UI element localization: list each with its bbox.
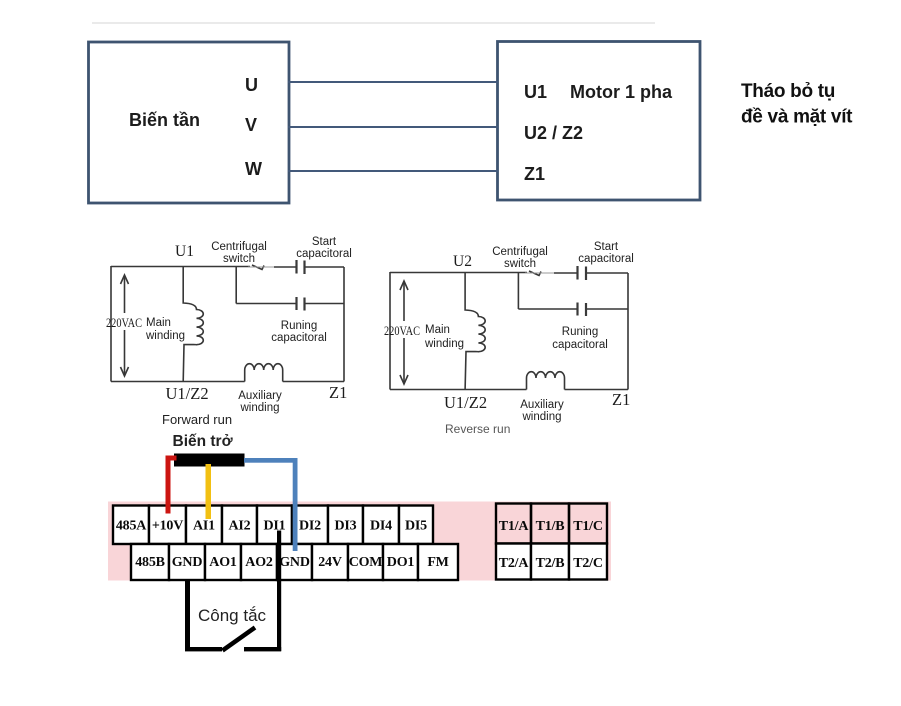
right vertical wire [343,267,345,382]
terminal FM [418,544,458,580]
start capacitor C1 [295,260,297,274]
left vertical wire [389,272,391,390]
wire blue (RV1 to GND) [244,458,298,463]
wire W (inverter W to motor Z1) [288,170,498,172]
top wire to start capacitor [554,272,577,274]
svg-text:485A: 485A [116,519,147,534]
centrifugal switch branch wire [235,267,237,304]
svg-text:T2/B: T2/B [536,556,565,571]
switch bottom-left lead [185,647,222,651]
right vertical wire [627,273,629,390]
bottom wire left [111,381,245,383]
svg-text:T1/A: T1/A [499,519,530,534]
terminal DI2 [292,506,328,545]
terminal GND b [277,544,312,580]
svg-text:U1/Z2: U1/Z2 [444,393,487,412]
svg-text:T2/A: T2/A [499,556,530,571]
svg-text:Z1: Z1 [612,390,630,409]
terminal T1/C [569,504,607,544]
svg-text:capacitoral: capacitoral [271,332,327,344]
svg-text:COM: COM [349,555,383,570]
centrifugal switch SW1 blade [252,265,264,270]
bottom wire right [565,389,629,391]
wire U (inverter U to motor U1) [288,81,498,83]
terminal GND a [169,544,205,580]
svg-text:Biến trở: Biến trở [173,433,234,450]
start capacitor C3 [576,266,578,280]
top wire right segment [587,272,628,274]
svg-text:AI1: AI1 [193,519,215,534]
svg-text:Start: Start [594,241,619,253]
svg-text:Auxiliary: Auxiliary [238,390,282,402]
terminal 485B [131,544,169,580]
terminal T2/B [531,544,569,580]
terminal AO2 [241,544,277,580]
terminal 24V [312,544,348,580]
svg-text:Motor 1 pha: Motor 1 pha [570,82,673,102]
svg-text:switch: switch [504,258,536,270]
svg-text:Main: Main [425,324,450,336]
svg-text:T2/C: T2/C [573,556,603,571]
svg-text:FM: FM [427,555,448,570]
bottom wire right [283,381,344,383]
svg-text:U2: U2 [453,253,472,270]
svg-text:DI1: DI1 [264,519,286,534]
terminal DI1 [257,506,292,545]
wire V (inverter V to motor U2/Z2) [288,126,498,128]
svg-text:DO1: DO1 [387,555,415,570]
terminal +10V [149,506,186,545]
top wire to start capacitor [274,266,296,268]
auxiliary winding L2 [245,364,283,382]
svg-text:Runing: Runing [562,326,598,338]
pink background band [108,502,611,581]
main winding L1 [183,267,203,382]
wire black (GND down to switch) [185,580,190,651]
running capacitor wire [518,308,576,310]
svg-text:U1/Z2: U1/Z2 [166,384,209,403]
svg-text:Tháo bỏ tụ: Tháo bỏ tụ [741,81,835,102]
svg-text:capacitoral: capacitoral [578,253,634,265]
svg-text:Forward run: Forward run [162,412,232,427]
centrifugal switch branch wire [517,273,519,309]
svg-text:Centrifugal: Centrifugal [492,246,548,258]
terminal T2/A [496,544,531,580]
terminal T2/C [569,544,607,580]
svg-text:Reverse run: Reverse run [445,422,510,436]
top wire left segment [390,272,527,274]
svg-text:W: W [245,159,262,179]
svg-text:485B: 485B [135,555,165,570]
terminal COM [348,544,383,580]
wire black (DI1 down to switch) [277,531,281,652]
svg-text:Runing: Runing [281,320,317,332]
bottom wire left [390,389,527,391]
svg-text:GND: GND [172,555,203,570]
svg-text:winding: winding [145,330,185,342]
svg-text:U1: U1 [524,82,547,102]
terminal T1/A [496,504,531,544]
svg-text:24V: 24V [318,555,342,570]
svg-text:winding: winding [522,411,562,423]
svg-text:đề và mặt vít: đề và mặt vít [741,107,853,128]
terminal AI1 [186,506,222,545]
svg-text:capacitoral: capacitoral [296,248,352,260]
svg-text:U2 / Z2: U2 / Z2 [524,123,583,143]
motor box Motor 1 pha [498,42,701,201]
inverter box Biến tần [89,42,290,203]
svg-text:Công tắc: Công tắc [198,606,267,625]
terminal AO1 [205,544,241,580]
running capacitor C2 [295,297,297,310]
svg-text:Start: Start [312,236,337,248]
svg-text:+10V: +10V [152,519,183,534]
switch bottom-right lead [244,647,281,651]
svg-text:Biến tần: Biến tần [129,110,200,130]
centrifugal switch SW2 blade [529,271,541,276]
svg-text:AO2: AO2 [245,555,273,570]
svg-text:AO1: AO1 [209,555,237,570]
svg-text:DI3: DI3 [335,519,357,534]
svg-text:U1: U1 [175,243,194,260]
terminal 485A [113,506,149,545]
left vertical wire [110,266,112,382]
terminal DO1 [383,544,418,580]
svg-text:T1/C: T1/C [573,519,603,534]
svg-text:DI5: DI5 [405,519,427,534]
top wire left segment [111,266,250,268]
faint scan smudge line [92,22,655,24]
svg-text:GND: GND [279,555,310,570]
terminal T1/B [531,504,569,544]
svg-text:DI2: DI2 [299,519,321,534]
main winding L3 [465,273,485,390]
svg-text:winding: winding [424,338,464,350]
terminal DI3 [328,506,363,545]
svg-text:AI2: AI2 [229,519,251,534]
potentiometer RV1 body [174,454,245,467]
svg-text:U: U [245,75,258,95]
running capacitor C4 [576,303,578,316]
svg-text:DI4: DI4 [370,519,392,534]
svg-text:winding: winding [240,402,280,414]
svg-text:220VAC: 220VAC [106,316,142,330]
wire red (RV1 to +10V) [166,456,177,461]
terminal DI5 [399,506,433,545]
top wire right segment [306,266,345,268]
svg-text:Z1: Z1 [524,164,545,184]
svg-text:V: V [245,115,257,135]
svg-text:switch: switch [223,253,255,265]
220VAC arrow [400,281,408,384]
running capacitor wire [236,303,295,305]
switch blade Công tắc [223,628,256,651]
svg-text:capacitoral: capacitoral [552,339,608,351]
terminal DI4 [363,506,399,545]
svg-text:T1/B: T1/B [536,519,565,534]
svg-text:Z1: Z1 [329,383,347,402]
svg-text:Centrifugal: Centrifugal [211,241,267,253]
svg-text:220VAC: 220VAC [384,324,420,338]
wire yellow (RV1 wiper to AI1) [206,464,212,519]
220VAC arrow [121,275,129,376]
svg-text:Auxiliary: Auxiliary [520,399,564,411]
auxiliary winding L4 [527,372,565,390]
terminal AI2 [222,506,257,545]
svg-text:Main: Main [146,317,171,329]
